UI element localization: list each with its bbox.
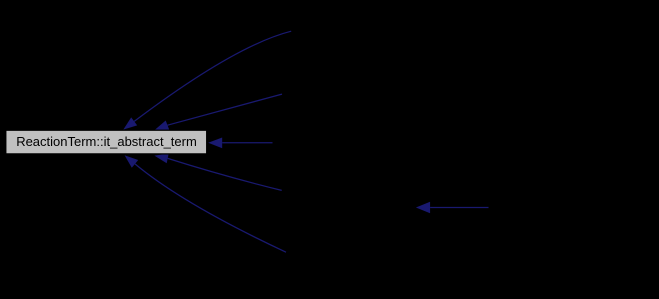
wire edge5 arrowhead [125, 155, 139, 168]
wire edge5 curve [135, 164, 286, 252]
wire edge3 arrowhead [208, 138, 222, 149]
wire edge4 arrowhead [154, 154, 168, 164]
wire edge1 curve [134, 31, 291, 121]
wire edge2 arrowhead [155, 121, 170, 131]
node ReactionTerm::it_abstract_term box [6, 130, 207, 154]
svg-text:ReactionTerm::it_abstract_term: ReactionTerm::it_abstract_term [16, 134, 197, 149]
wire edge4 curve [168, 158, 282, 190]
wire edge1 arrowhead [123, 117, 137, 129]
wire edge6 arrowhead [416, 202, 430, 214]
wire edge3 line [222, 142, 272, 144]
wire edge6 line [430, 207, 488, 209]
wire edge2 line [168, 94, 283, 125]
